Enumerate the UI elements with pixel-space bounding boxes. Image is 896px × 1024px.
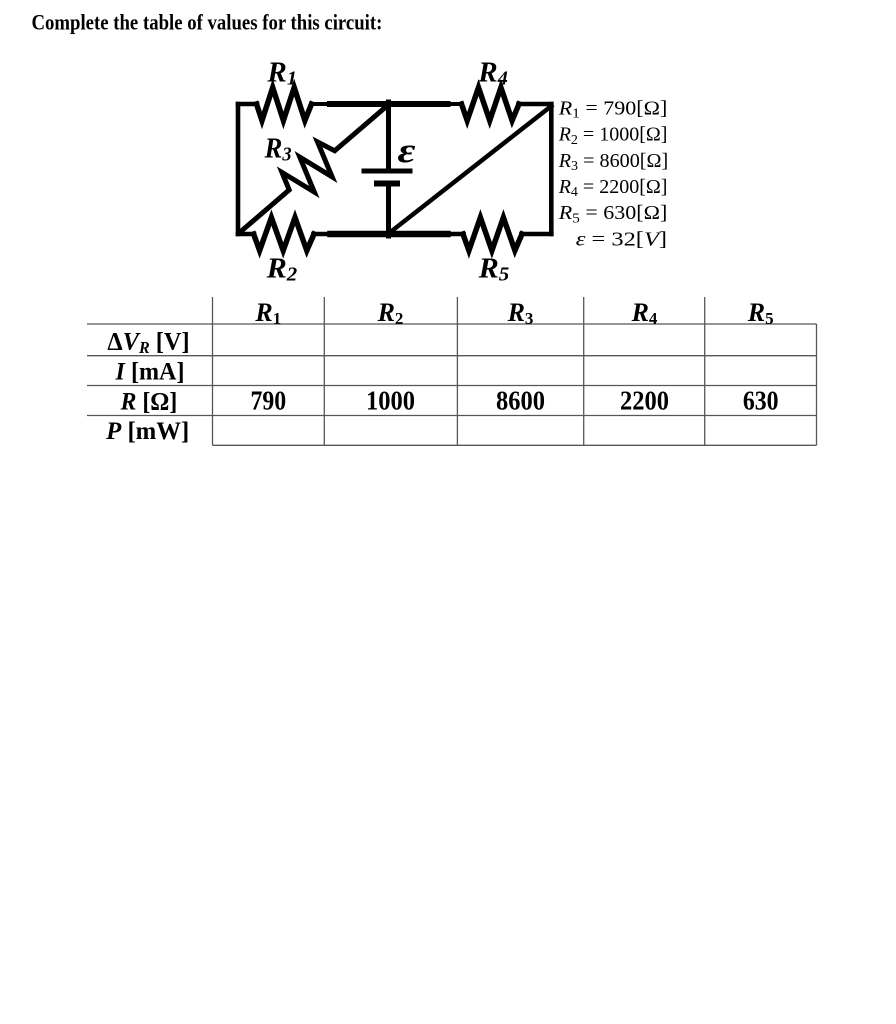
svg-text:R5: R5 bbox=[747, 298, 774, 328]
svg-text:R4 = 2200[Ω]: R4 = 2200[Ω] bbox=[558, 176, 668, 200]
svg-text:ΔVR [V]: ΔVR [V] bbox=[107, 328, 189, 357]
svg-text:ε: ε bbox=[398, 131, 416, 170]
svg-text:ε = 32[V]: ε = 32[V] bbox=[576, 228, 667, 250]
svg-text:R [Ω]: R [Ω] bbox=[120, 388, 178, 416]
svg-text:R5: R5 bbox=[478, 253, 510, 285]
svg-text:R2 = 1000[Ω]: R2 = 1000[Ω] bbox=[558, 124, 668, 148]
svg-text:Complete the table of values f: Complete the table of values for this ci… bbox=[32, 11, 383, 35]
svg-text:R4: R4 bbox=[631, 298, 658, 328]
svg-text:R4: R4 bbox=[477, 57, 507, 90]
svg-text:R3: R3 bbox=[507, 298, 534, 328]
svg-text:R3 = 8600[Ω]: R3 = 8600[Ω] bbox=[558, 150, 668, 174]
svg-text:R5 = 630[Ω]: R5 = 630[Ω] bbox=[558, 201, 668, 226]
svg-text:R1 = 790[Ω]: R1 = 790[Ω] bbox=[558, 96, 668, 121]
svg-text:R2: R2 bbox=[266, 253, 298, 285]
svg-text:R1: R1 bbox=[254, 298, 281, 328]
svg-text:P [mW]: P [mW] bbox=[105, 418, 189, 445]
svg-text:1000: 1000 bbox=[366, 385, 415, 415]
svg-text:790: 790 bbox=[250, 385, 286, 416]
svg-text:R1: R1 bbox=[266, 57, 296, 90]
svg-text:R2: R2 bbox=[377, 298, 404, 328]
svg-text:630: 630 bbox=[743, 385, 779, 416]
svg-text:2200: 2200 bbox=[620, 385, 669, 415]
svg-text:8600: 8600 bbox=[496, 385, 545, 415]
svg-text:R3: R3 bbox=[264, 133, 292, 166]
svg-text:I [mA]: I [mA] bbox=[115, 358, 185, 385]
